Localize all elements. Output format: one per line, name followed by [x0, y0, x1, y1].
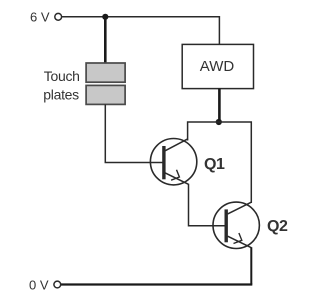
Q2 emitter arrow	[234, 233, 242, 244]
Q2 collector line	[228, 202, 252, 214]
Q2 base bar	[224, 209, 227, 242]
svg-text:Q1: Q1	[204, 156, 225, 173]
svg-text:6 V: 6 V	[30, 10, 50, 25]
Q2 body circle	[213, 202, 259, 248]
Q2 emitter line	[228, 236, 252, 248]
wire AWD to junction	[218, 89, 221, 122]
Q1 base bar	[162, 146, 165, 179]
wire 6V rail to AWD top	[62, 17, 220, 45]
svg-text:Touch: Touch	[44, 68, 80, 84]
wire 0V rail	[61, 283, 252, 285]
wire junction to touch plates	[104, 17, 107, 64]
transistor Q2	[213, 202, 259, 248]
junction below AWD	[216, 119, 222, 125]
terminal 6V	[55, 13, 62, 20]
Q1 collector line	[165, 139, 188, 151]
Q1 body circle	[150, 139, 196, 185]
touch plate lower	[86, 85, 125, 104]
touch plate upper	[86, 63, 125, 82]
wire touch plates to Q1 base	[105, 104, 164, 162]
transistor Q1	[150, 139, 196, 185]
svg-text:plates: plates	[43, 87, 79, 103]
wire collector rail Q1 to Q2	[188, 122, 252, 203]
terminal 0V	[54, 281, 61, 288]
svg-text:AWD: AWD	[200, 58, 235, 75]
wire Q1 emitter to Q2 base	[189, 184, 226, 226]
svg-text:0 V: 0 V	[29, 277, 49, 292]
junction on 6V rail	[102, 14, 108, 20]
svg-text:Q2: Q2	[267, 218, 288, 235]
block AWD	[182, 44, 253, 88]
Q1 emitter line	[165, 173, 188, 184]
Q1 emitter arrow	[171, 170, 179, 181]
wire Q2 emitter to 0V rail	[250, 247, 252, 284]
